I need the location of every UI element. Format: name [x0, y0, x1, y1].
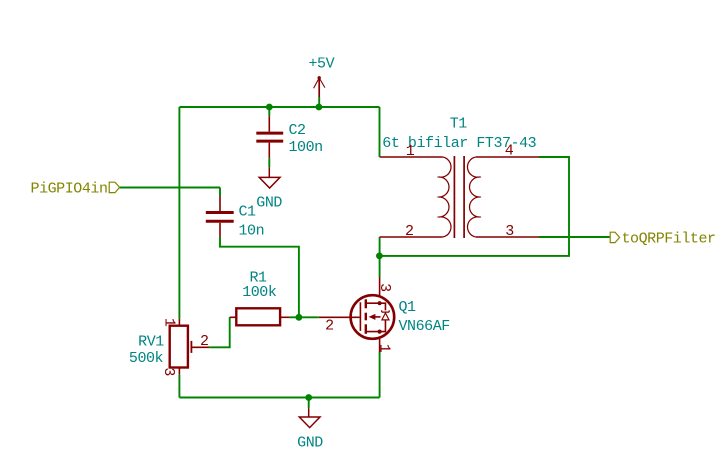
global label PiGPIO4in	[109, 182, 119, 192]
svg-text:3: 3	[505, 223, 514, 240]
wire top-right down to T1 pin1	[379, 107, 381, 157]
capacitor C2	[256, 116, 283, 158]
svg-text:RV1: RV1	[138, 334, 164, 351]
svg-text:C1: C1	[239, 204, 257, 221]
svg-text:3: 3	[160, 367, 177, 376]
svg-text:VN66AF: VN66AF	[399, 318, 450, 335]
junction R1 right node	[296, 314, 303, 321]
ground symbol under C2	[259, 167, 280, 188]
junction bottom GND node	[305, 394, 312, 401]
wire left vertical rail	[178, 107, 180, 319]
Q1 source internal	[366, 320, 386, 332]
T1 right winding cusps	[479, 177, 481, 217]
wire C1 bottom route to R1 right junction	[220, 237, 299, 317]
Q1 gate bar	[359, 302, 361, 331]
Q1 body diode anode triangle	[382, 313, 389, 320]
junction top +5V	[316, 104, 323, 111]
junction top C2	[266, 104, 273, 111]
wire bottom ground rail	[179, 397, 379, 399]
T1 core line right	[463, 156, 465, 238]
svg-text:GND: GND	[256, 195, 282, 212]
power +5V symbol	[314, 76, 325, 97]
T1 pin 2 line	[380, 236, 443, 238]
Q1 source pin	[379, 339, 381, 353]
T1 pin 3 line	[476, 236, 539, 238]
wire R1 right to Q1 gate	[290, 316, 319, 318]
wire RV1 bottom stub	[178, 375, 180, 398]
wire RV1 wiper to R1 left	[209, 317, 230, 347]
svg-text:1: 1	[376, 344, 393, 353]
potentiometer RV1	[170, 319, 209, 375]
wire Q1 source down	[379, 352, 381, 398]
Q1 gate pin	[319, 316, 360, 318]
svg-text:500k: 500k	[129, 350, 164, 367]
Q1 body diode cathode	[382, 310, 390, 312]
svg-text:3: 3	[376, 283, 393, 292]
resistor R1	[230, 308, 290, 325]
wire T1 pin4 loop to drain node	[380, 157, 569, 256]
Q1 source dot	[378, 330, 382, 334]
svg-text:2: 2	[325, 317, 334, 334]
capacitor C1	[206, 196, 234, 237]
wire top horizontal +5V rail	[179, 106, 379, 108]
svg-text:100k: 100k	[242, 284, 277, 301]
Q1 body circle	[351, 295, 395, 339]
svg-text:C2: C2	[289, 122, 306, 139]
wire GND bottom stub	[308, 398, 310, 409]
wire C2 top stub	[268, 107, 270, 116]
Q1 channel bar bottom	[365, 324, 367, 334]
T1 left winding	[439, 157, 451, 237]
svg-text:4: 4	[505, 143, 514, 160]
wire +5V stub	[318, 97, 320, 107]
T1 pin 4 line	[476, 156, 539, 158]
svg-text:1: 1	[161, 318, 178, 327]
T1 pin 1 line	[380, 156, 443, 158]
Q1 drain pin	[379, 277, 381, 295]
global label toQRPFilter	[610, 232, 619, 242]
svg-text:GND: GND	[297, 434, 323, 451]
T1 left winding cusps	[437, 177, 439, 217]
Q1 drain dot	[378, 301, 382, 305]
svg-text:100n: 100n	[289, 139, 323, 156]
svg-text:T1: T1	[450, 116, 468, 133]
svg-text:10n: 10n	[239, 223, 265, 240]
wire C1 top stub	[219, 188, 221, 197]
wire T1 pin2 down to Q1 drain	[379, 237, 381, 277]
Q1 channel bar top	[365, 299, 367, 308]
Q1 channel bar middle	[365, 313, 367, 321]
svg-text:+5V: +5V	[309, 56, 335, 73]
svg-text:PiGPIO4in: PiGPIO4in	[31, 181, 108, 198]
svg-text:2: 2	[200, 333, 209, 350]
T1 right winding	[467, 157, 479, 237]
svg-text:toQRPFilter: toQRPFilter	[622, 231, 716, 248]
svg-text:1: 1	[406, 143, 415, 160]
svg-text:Q1: Q1	[399, 299, 417, 316]
svg-text:2: 2	[405, 223, 414, 240]
Q1 drain internal	[366, 303, 386, 310]
Q1 bulk line	[374, 316, 381, 318]
T1 core line left	[453, 156, 455, 238]
wire PiGPIO4in to C1	[119, 187, 220, 189]
Q1 bulk arrow	[369, 314, 376, 320]
wire T1 pin3 to toQRPFilter	[539, 236, 610, 238]
transformer T1	[380, 156, 539, 238]
transistor Q1 MOSFET	[319, 277, 394, 352]
wire C2 bottom to GND stub	[268, 158, 270, 167]
ground symbol bottom	[299, 408, 320, 427]
junction drain node	[376, 253, 383, 260]
